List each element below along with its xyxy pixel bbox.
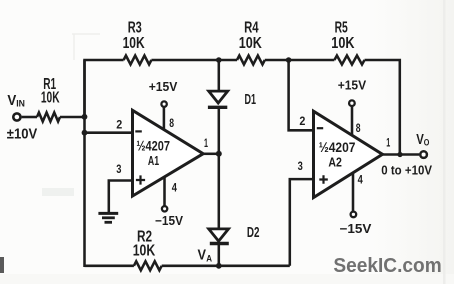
svg-text:½4207: ½4207 bbox=[136, 139, 170, 154]
node -15V A1 terminal bbox=[162, 206, 167, 211]
diode D1 bbox=[208, 91, 228, 107]
svg-text:D1: D1 bbox=[245, 91, 257, 108]
wire R4 to R5 bbox=[265, 59, 335, 62]
junction VA node bbox=[216, 263, 222, 269]
wire diode rail upper bbox=[218, 60, 221, 91]
wire diode rail lower bbox=[218, 245, 221, 266]
faint ghost corner top-left bbox=[72, 34, 100, 60]
faint fold line right bbox=[443, 0, 446, 284]
wire A2 pin3 riser bbox=[290, 179, 314, 266]
resistor R2 bbox=[134, 261, 162, 270]
svg-text:10K: 10K bbox=[123, 35, 146, 52]
svg-text:A2: A2 bbox=[328, 154, 342, 169]
wire R1 to node bbox=[60, 116, 85, 119]
node Vo terminal bbox=[420, 151, 427, 158]
svg-text:V: V bbox=[198, 248, 207, 264]
wire Vin lead bbox=[22, 116, 37, 119]
svg-text:IN: IN bbox=[16, 98, 25, 109]
svg-text:0 to +10V: 0 to +10V bbox=[381, 163, 432, 178]
wire bottom rail bbox=[85, 265, 134, 268]
wire A1 pin4 stub bbox=[163, 176, 166, 206]
wire A2 pin8 stub bbox=[351, 107, 354, 135]
svg-text:2: 2 bbox=[299, 114, 305, 128]
svg-text:−15V: −15V bbox=[155, 214, 184, 228]
op-amp A1 plus sign bbox=[136, 175, 145, 184]
op-amp A2 bbox=[314, 111, 383, 197]
wire R5 to right corner and down to output node bbox=[365, 60, 400, 155]
wire R3 to D1 node bbox=[151, 59, 237, 62]
svg-text:8: 8 bbox=[356, 121, 361, 135]
resistor R4 bbox=[237, 56, 265, 65]
junction output node bbox=[397, 152, 402, 157]
junction R1/rail bbox=[82, 114, 88, 120]
bottom-left edge mark bbox=[0, 257, 4, 273]
faint ghost text left bbox=[42, 188, 74, 196]
svg-text:A: A bbox=[206, 253, 212, 264]
svg-text:R3: R3 bbox=[128, 19, 142, 36]
resistor R1 bbox=[37, 113, 60, 122]
svg-text:10K: 10K bbox=[331, 35, 355, 52]
wire bottom rail right bbox=[162, 265, 290, 268]
wire A2 output bbox=[383, 153, 420, 156]
wire A1 pin8 stub bbox=[163, 107, 166, 131]
svg-text:3: 3 bbox=[116, 162, 121, 176]
svg-text:10K: 10K bbox=[239, 35, 263, 52]
junction top/D1 bbox=[216, 57, 222, 63]
svg-text:−15V: −15V bbox=[340, 222, 373, 236]
node -15V A2 terminal bbox=[351, 212, 357, 218]
op-amp A2 plus sign bbox=[319, 175, 328, 183]
resistor R3 bbox=[124, 56, 152, 65]
svg-text:3: 3 bbox=[298, 159, 303, 173]
wire left rail vertical bbox=[83, 60, 86, 267]
node +15V A1 terminal bbox=[161, 101, 166, 106]
wire top rail left segment bbox=[85, 60, 124, 117]
svg-text:A1: A1 bbox=[148, 153, 159, 168]
resistor R5 bbox=[334, 56, 364, 65]
wire A1 pin3 to ground bbox=[109, 181, 133, 213]
svg-text:2: 2 bbox=[116, 117, 122, 131]
op-amp A1 bbox=[133, 110, 204, 196]
svg-text:½4207: ½4207 bbox=[319, 140, 356, 155]
svg-text:D2: D2 bbox=[247, 224, 260, 241]
node +15V A2 terminal bbox=[349, 100, 355, 106]
wire diode rail middle bbox=[218, 109, 221, 229]
ground bbox=[98, 213, 118, 222]
svg-text:R5: R5 bbox=[335, 19, 348, 36]
svg-text:R4: R4 bbox=[244, 19, 259, 36]
junction pin2 wire/rail bbox=[82, 130, 88, 136]
svg-text:8: 8 bbox=[169, 116, 174, 130]
op-amp A1 minus sign bbox=[135, 130, 142, 132]
svg-text:SeekIC.com: SeekIC.com bbox=[333, 255, 441, 277]
junction top/A2 pin2 bbox=[286, 57, 292, 63]
wire top node to A2 pin2 bbox=[289, 60, 314, 130]
svg-text:+15V: +15V bbox=[149, 80, 178, 94]
svg-text:10K: 10K bbox=[41, 89, 60, 106]
svg-text:1: 1 bbox=[386, 136, 390, 150]
wire A1 output to diode rail bbox=[203, 153, 219, 156]
op-amp A2 minus sign bbox=[317, 127, 323, 129]
svg-text:+15V: +15V bbox=[338, 78, 367, 92]
diode D2 bbox=[209, 229, 229, 244]
svg-text:±10V: ±10V bbox=[7, 127, 38, 143]
junction A1 out/diode rail bbox=[216, 151, 222, 157]
node Vin terminal bbox=[13, 113, 20, 120]
svg-text:4: 4 bbox=[358, 173, 363, 187]
wire node to A1 pin2 bbox=[85, 131, 133, 134]
svg-text:1: 1 bbox=[204, 136, 208, 150]
svg-text:O: O bbox=[424, 138, 430, 149]
svg-text:4: 4 bbox=[172, 180, 177, 194]
wire A2 pin4 stub bbox=[352, 173, 355, 212]
svg-text:10K: 10K bbox=[133, 242, 156, 259]
